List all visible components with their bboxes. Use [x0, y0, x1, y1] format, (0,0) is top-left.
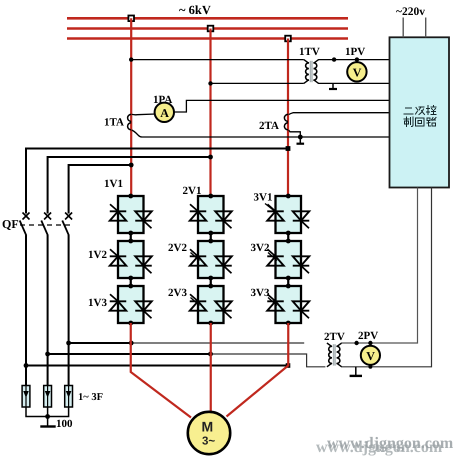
wire QF tap from phase B (top)	[48, 155, 213, 214]
wire 2TV secondary bottom to control box	[341, 188, 431, 367]
wire 1TV secondary top to control box	[318, 57, 389, 61]
wire bypass return phase B (QF pole2 to col2 bottom, continues to 2TV primary bottom)	[45, 352, 325, 367]
ground (2TV secondary)	[350, 367, 362, 376]
fuse 2F	[44, 386, 52, 408]
node fuse common junction	[45, 414, 50, 419]
svg-text:2V1: 2V1	[183, 185, 202, 197]
thyristor module 1V2 (anti-parallel SCR pair)	[110, 239, 152, 281]
breaker QF pole 1 (phase C leg)	[20, 213, 30, 237]
ammeter 1PA	[155, 103, 174, 122]
wire 2TA return	[289, 130, 301, 137]
thyristor module 1V1 (anti-parallel SCR pair)	[110, 194, 152, 236]
thyristor module 2V3 (anti-parallel SCR pair)	[190, 284, 232, 326]
svg-text:A: A	[160, 106, 169, 120]
svg-text:1V2: 1V2	[88, 249, 107, 261]
thyristor module 3V2 (anti-parallel SCR pair)	[267, 239, 309, 281]
wire 1TV primary bottom (phase B to 1TV)	[208, 81, 303, 85]
node bus tap L2 (square terminal)	[208, 26, 214, 32]
wire col1 output (red) to motor	[131, 323, 191, 418]
wire ~220V supply leads	[403, 18, 426, 38]
wire QF pole2 lower leg	[47, 236, 49, 386]
wire 1TA return (to common)	[132, 130, 390, 137]
motor M 3~	[188, 412, 230, 454]
svg-text:M: M	[202, 419, 214, 435]
wire 2TV secondary top to control box	[341, 188, 417, 346]
svg-text:1PA: 1PA	[153, 94, 172, 106]
ground (measuring common)	[297, 137, 305, 144]
wire series link col3 V1-V2	[287, 233, 289, 241]
svg-text:3V3: 3V3	[251, 287, 270, 299]
thyristor module 1V3 (anti-parallel SCR pair)	[110, 284, 152, 326]
label 3V1	[254, 192, 275, 212]
svg-text:3~: 3~	[202, 436, 215, 448]
thyristor module 2V2 (anti-parallel SCR pair)	[190, 239, 232, 281]
ground (fuse common, 100 ohm)	[40, 417, 55, 427]
svg-text:2TA: 2TA	[259, 120, 279, 132]
QF mechanical linkage (dashed)	[20, 224, 72, 226]
wire series link col2 V2-V3	[210, 278, 212, 286]
wire phase B feeder (red, col2)	[209, 29, 211, 198]
svg-text:www.djgngon.com: www.djgngon.com	[327, 435, 454, 452]
wire col2 output (red) to motor	[210, 323, 212, 413]
svg-text:~ 6kV: ~ 6kV	[179, 3, 211, 17]
wire 1PA to control box	[174, 100, 390, 112]
fuse 1F	[22, 386, 30, 408]
wire col3 output (red) to motor	[227, 323, 289, 417]
wire QF pole1 lower leg	[25, 236, 27, 386]
label 2V2	[168, 242, 200, 261]
svg-text:1V3: 1V3	[88, 297, 107, 309]
svg-text:2PV: 2PV	[358, 330, 378, 342]
thyristor module 2V1 (anti-parallel SCR pair)	[190, 194, 232, 236]
wire series link col1 V2-V3	[130, 278, 132, 286]
wire 1TV primary top (phase A to 1TV)	[129, 57, 304, 61]
wire QF tap from phase C (top)	[26, 146, 290, 213]
svg-text:1TV: 1TV	[299, 46, 320, 58]
wire 6kV bus phase L1	[67, 17, 348, 20]
wire 1TV secondary bottom to control box	[318, 82, 389, 84]
CT 2TA (current transformer, phase C)	[284, 114, 288, 129]
breaker QF pole 3 (phase A leg)	[62, 213, 72, 237]
thyristor module 3V1 (anti-parallel SCR pair)	[267, 194, 309, 236]
svg-text:2V3: 2V3	[168, 287, 187, 299]
wire 2TA to control box	[289, 113, 390, 115]
label control box text 二次控制回路	[404, 106, 436, 127]
voltmeter 2PV	[361, 346, 380, 369]
svg-text:1PV: 1PV	[345, 46, 365, 58]
svg-text:1TA: 1TA	[104, 117, 124, 129]
svg-text:2V2: 2V2	[168, 242, 187, 254]
CT 1TA (current transformer, phase A)	[128, 114, 132, 129]
node bus tap L1 (square terminal)	[128, 16, 134, 22]
wire 6kV bus phase L2	[67, 27, 348, 30]
label 3V3	[251, 287, 278, 306]
svg-text:~220v: ~220v	[396, 6, 425, 18]
wire QF pole3 lower leg	[68, 236, 70, 386]
svg-text:V: V	[366, 349, 375, 363]
svg-text:1~ 3F: 1~ 3F	[78, 392, 103, 403]
wire series link col1 V1-V2	[130, 233, 132, 241]
wire phase A feeder (red, col1)	[130, 18, 132, 197]
transformer 2TV (output potential transformer)	[327, 343, 342, 367]
voltmeter 1PV	[347, 62, 366, 81]
svg-text:1V1: 1V1	[104, 178, 123, 190]
thyristor module 3V3 (anti-parallel SCR pair)	[267, 284, 309, 326]
svg-text:100: 100	[56, 418, 73, 430]
wire fuse common bar	[26, 407, 69, 417]
svg-text:3V1: 3V1	[254, 192, 273, 204]
wire 6kV bus phase L3	[67, 37, 348, 40]
wire 1TA to 1PA	[132, 113, 156, 116]
transformer 1TV (potential transformer)	[304, 60, 319, 84]
label 2V3	[168, 287, 200, 306]
svg-text:QF: QF	[2, 217, 19, 231]
svg-text:3V2: 3V2	[251, 242, 270, 254]
wire series link col2 V1-V2	[210, 233, 212, 241]
node common return junction	[298, 135, 303, 140]
wire phase C feeder (red, col3)	[287, 39, 289, 198]
node bus tap L3 (square terminal)	[285, 36, 291, 42]
breaker QF pole 2 (phase B leg)	[41, 213, 51, 237]
wire QF tap from phase A (top)	[69, 163, 134, 214]
wire bypass return phase A (QF pole3 to col1 bottom, continues to 2TV primary top)	[66, 341, 304, 346]
svg-text:2TV: 2TV	[324, 331, 345, 343]
control unit box (secondary control circuit)	[390, 37, 450, 187]
wire bypass return phase C (QF pole1 to col3 bottom)	[24, 363, 291, 368]
ground (1TV secondary)	[329, 83, 337, 89]
svg-text:V: V	[353, 66, 362, 80]
fuse 3F	[65, 386, 73, 408]
watermark www.djgngon.com	[316, 435, 454, 456]
wire series link col3 V2-V3	[287, 278, 289, 286]
label 3V2	[251, 242, 278, 261]
